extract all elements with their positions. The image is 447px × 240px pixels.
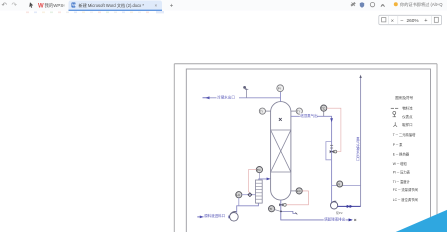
column packing section with X (271, 130, 291, 172)
undo icon (2, 2, 8, 9)
svg-text:物料流: 物料流 (402, 106, 413, 111)
vapour arrow down (330, 118, 333, 122)
instrument TC1 (321, 105, 327, 116)
bottoms outlet wire (281, 200, 352, 220)
discharge arrows (346, 205, 352, 208)
instrument TC2 stem (258, 173, 260, 179)
svg-text:×: × (391, 18, 394, 24)
svg-text:图例及符号: 图例及符号 (395, 95, 413, 100)
svg-text:FI: FI (338, 182, 341, 186)
new tab plus button (170, 4, 174, 10)
corner overlay triangle (396, 210, 447, 232)
legend row 2 (393, 142, 403, 147)
svg-text:↶: ↶ (2, 2, 8, 9)
vent valve V1 (243, 86, 248, 98)
feed arrowhead at pump (229, 215, 233, 218)
svg-text:塔顶蒸气出: 塔顶蒸气出 (300, 113, 318, 118)
pump P2 discharge wire (338, 205, 361, 207)
condensate label (217, 95, 240, 100)
feed inlet arrow (197, 216, 204, 219)
svg-text:取样口: 取样口 (402, 122, 412, 127)
feed wire (204, 216, 231, 218)
svg-text:冷凝水出口: 冷凝水出口 (217, 95, 235, 100)
feed to column arrow (267, 178, 271, 181)
vapour label (300, 113, 318, 118)
control valve CV1 (330, 150, 337, 153)
legend instrument symbol (393, 111, 396, 116)
feed label (204, 213, 229, 218)
bookmarks favicon smudges (26, 11, 164, 13)
svg-text:泵P2: 泵P2 (336, 210, 343, 215)
svg-text:你的证书即将过 (Alt+Q: 你的证书即将过 (Alt+Q (400, 1, 443, 8)
bypass loop wire (326, 142, 332, 160)
bottoms arrow (349, 218, 353, 221)
active tab underline (69, 10, 163, 11)
instrument LC1 (236, 192, 242, 206)
legend row 1 (393, 132, 416, 137)
svg-text:PI: PI (278, 87, 281, 91)
condensate header wire (205, 97, 280, 99)
legend row 5 (393, 169, 411, 174)
zoom toolbar (379, 15, 442, 24)
page right edge (436, 64, 438, 232)
legend row 6 (393, 179, 411, 184)
legend row 4 (393, 161, 408, 166)
svg-text:仪表点: 仪表点 (402, 114, 413, 119)
cursor icon (29, 2, 33, 8)
svg-text:我的WPS: 我的WPS (45, 2, 64, 9)
svg-text:↷: ↷ (12, 2, 18, 9)
instrument FI1 (337, 181, 343, 187)
svg-text:PI ─ 压力表: PI ─ 压力表 (393, 169, 411, 174)
legend title (395, 95, 413, 100)
LC valve wire (242, 194, 256, 196)
feed to column wire (259, 179, 269, 180)
Word icon in tab (72, 3, 78, 8)
svg-text:×: × (63, 3, 66, 8)
page left edge (173, 64, 175, 232)
legend row 8 (393, 197, 418, 202)
pump P2 label (336, 210, 343, 215)
riser wire (360, 76, 362, 206)
WPS tab title (45, 2, 64, 9)
preheater E1 (256, 180, 263, 203)
legend instrument text (402, 114, 413, 119)
instrument TC2 (256, 167, 262, 173)
flange ticks (330, 145, 333, 148)
svg-text:TI: TI (260, 109, 263, 113)
svg-text:新建 Microsoft Word 文档 (2).docx: 新建 Microsoft Word 文档 (2).docx * (79, 2, 145, 8)
legend row 3 (393, 152, 410, 157)
browser right icons (351, 3, 355, 7)
instrument PI1 (277, 85, 284, 92)
condensate arrow (203, 96, 210, 99)
svg-text:TI: TI (269, 207, 272, 211)
legend row 7 (393, 187, 418, 192)
svg-text:塔釦残液排出: 塔釦残液排出 (324, 216, 345, 221)
page top edge (174, 63, 437, 65)
spray nozzle x mark (279, 118, 282, 121)
reflux drum top wire (332, 184, 361, 186)
riser label (356, 136, 360, 161)
svg-text:TI ─ 温度计: TI ─ 温度计 (393, 179, 411, 184)
legend sample symbol (393, 122, 397, 127)
riser top arrow (359, 75, 361, 78)
active tab close button (155, 3, 158, 8)
svg-text:260%: 260% (407, 18, 419, 23)
svg-text:−: − (400, 18, 403, 24)
sample point wire (280, 211, 297, 215)
svg-text:FC ─ 流量调节阀: FC ─ 流量调节阀 (393, 187, 418, 192)
signal wire TC2 to CV3 (249, 170, 257, 193)
signal wire TI3 to CV2 (287, 191, 309, 205)
svg-text:P ─ 泵: P ─ 泵 (393, 142, 403, 147)
overhead vapour wire (291, 116, 332, 202)
WPS tab logo (38, 4, 44, 10)
svg-text:W ─ 塔釦: W ─ 塔釦 (393, 161, 408, 166)
legend sample text (402, 122, 412, 127)
svg-text:LC ─ 液位调节阀: LC ─ 液位调节阀 (393, 197, 418, 202)
overhead stem wire (280, 92, 282, 102)
WPS tab close button (63, 3, 66, 8)
svg-text:×: × (155, 3, 158, 8)
reader icon (381, 5, 384, 7)
drawing border frame (186, 69, 430, 239)
pump P1 discharge wire (237, 203, 259, 213)
instrument TI3 (290, 188, 302, 194)
warning badge (394, 2, 398, 6)
signal wire TC1 to valve (327, 108, 341, 151)
control valve CV2 (279, 203, 286, 206)
pump P1 (230, 212, 239, 222)
svg-text:口: 口 (356, 157, 359, 161)
svg-text:+: + (170, 4, 174, 10)
active tab title (79, 2, 145, 8)
control valve CV3 (248, 193, 252, 197)
svg-text:W: W (38, 4, 44, 10)
svg-text:E ─ 换热器: E ─ 换热器 (393, 152, 410, 157)
browser tab bar background (0, 0, 447, 11)
legend material flow symbol (391, 107, 398, 109)
warning text (400, 1, 443, 8)
instrument TI1 (259, 108, 270, 114)
legend material flow text (402, 106, 413, 111)
svg-text:TI: TI (297, 109, 300, 113)
redo icon (12, 2, 18, 9)
bottoms end mark (354, 219, 356, 221)
bottoms label (324, 216, 346, 221)
svg-text:T ─ 二元精馏塔: T ─ 二元精馏塔 (393, 132, 416, 137)
shield icon (360, 2, 364, 7)
pump P2 (331, 201, 338, 209)
active tab background (69, 1, 163, 11)
column T1 shell (271, 102, 291, 200)
instrument TI2 (291, 108, 303, 114)
instrument TI4 (269, 206, 281, 212)
svg-text:原料液进料口: 原料液进料口 (204, 213, 225, 218)
svg-text:+: + (424, 18, 427, 24)
circle icon (370, 2, 374, 6)
